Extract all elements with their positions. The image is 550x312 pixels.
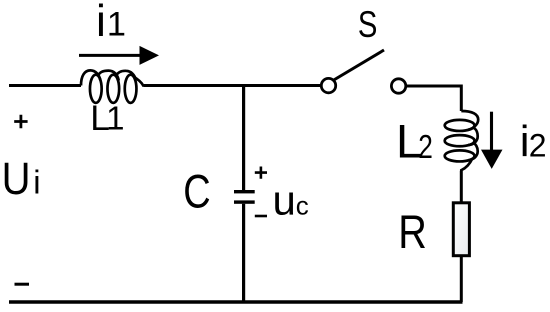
switch S right contact (391, 79, 405, 93)
label + of input port (14, 115, 27, 128)
svg-text:R: R (398, 205, 427, 258)
wire from node down to capacitor (242, 84, 245, 190)
wire bottom rail (9, 300, 463, 303)
svg-text:u: u (273, 176, 296, 223)
current arrow i1 (79, 46, 159, 65)
svg-text:2: 2 (529, 127, 547, 163)
label Ui input voltage (2, 153, 41, 204)
label i1 (96, 0, 126, 46)
label L1 (90, 99, 124, 138)
capacitor - polarity mark (255, 215, 267, 218)
wire from L2 to resistor R (460, 171, 463, 203)
switch S blade (334, 50, 384, 80)
svg-text:S: S (358, 3, 378, 45)
svg-text:1: 1 (106, 100, 124, 137)
svg-text:i: i (33, 164, 40, 201)
wire top-middle from L1 through node to switch (144, 84, 321, 87)
label uc (273, 176, 309, 223)
svg-text:i: i (96, 0, 106, 46)
wire top-left from input + terminal to L1 (9, 84, 81, 87)
svg-text:c: c (296, 190, 309, 220)
wire from switch to right branch with corner (406, 86, 462, 111)
capacitor C top plate (234, 190, 255, 193)
switch S left contact (321, 78, 335, 92)
capacitor C bottom plate (234, 200, 255, 203)
wire from resistor to bottom rail (460, 256, 463, 302)
current arrow i2 (481, 112, 503, 169)
label L2 (396, 115, 433, 168)
wire from capacitor to bottom rail (242, 204, 245, 302)
resistor R (453, 203, 469, 256)
label - of input port (15, 283, 30, 286)
label i2 (520, 117, 547, 166)
svg-text:2: 2 (418, 129, 433, 166)
svg-text:C: C (183, 166, 210, 219)
inductor L2 (445, 111, 479, 171)
svg-text:U: U (2, 153, 31, 204)
svg-text:1: 1 (107, 6, 126, 44)
inductor L1 (81, 70, 144, 103)
capacitor + polarity mark (255, 167, 267, 179)
